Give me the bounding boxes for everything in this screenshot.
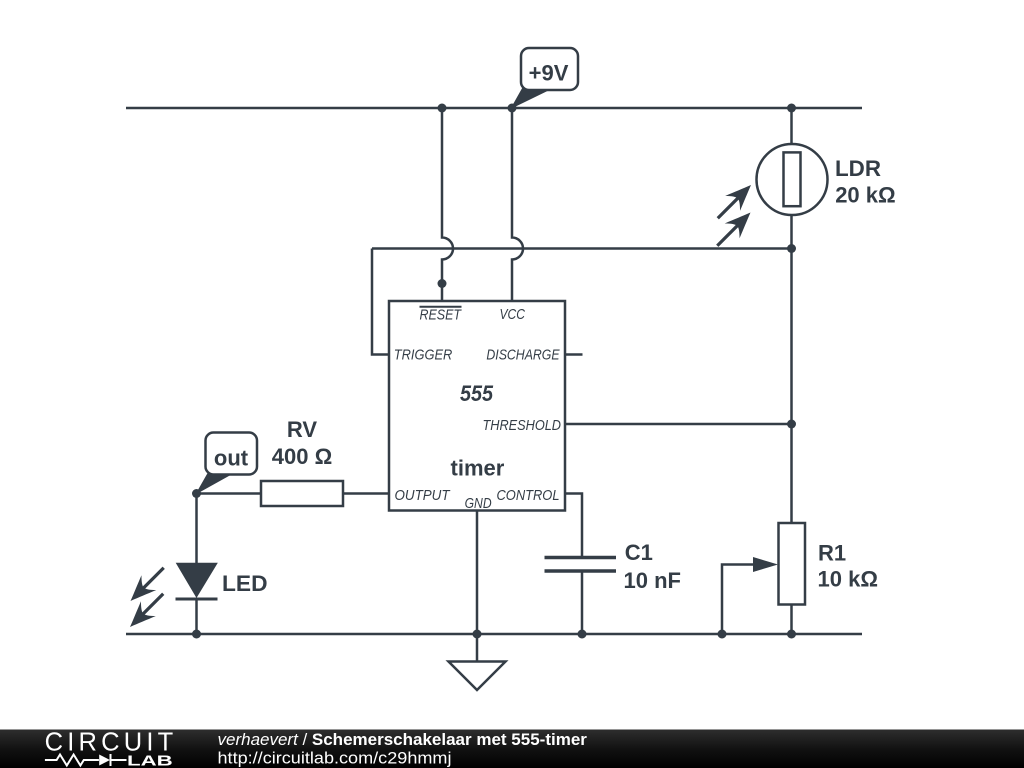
wire top +9V rail: [126, 107, 862, 110]
svg-text:TRIGGER: TRIGGER: [394, 348, 453, 364]
svg-text:THRESHOLD: THRESHOLD: [483, 418, 562, 434]
wire VCC from rail (with hop): [512, 108, 523, 301]
node dot rail / LED: [192, 630, 201, 639]
wire CONTROL to C1: [565, 494, 582, 557]
wire GND pin to rail: [476, 511, 479, 635]
node dot rail / GND: [473, 630, 482, 639]
node dot top rail / +9V: [508, 104, 517, 113]
svg-text:LDR: LDR: [835, 156, 881, 181]
svg-text:CONTROL: CONTROL: [497, 488, 560, 504]
wire LED cathode to rail: [195, 599, 198, 634]
svg-text:out: out: [214, 446, 249, 471]
pin label RESET (with overline): [420, 307, 462, 324]
svg-text:Schemerschakelaar met 555-time: Schemerschakelaar met 555-timer: [312, 730, 587, 749]
wire RESET from rail (with hop): [442, 108, 453, 301]
label R1 value: [818, 541, 878, 592]
label C1 value: [624, 540, 681, 593]
LDR light arrow 2: [710, 205, 758, 253]
net flag +9V: [512, 48, 579, 108]
wire out node to RV: [197, 492, 262, 495]
node dot top rail / LDR: [787, 104, 796, 113]
svg-text:DISCHARGE: DISCHARGE: [486, 348, 559, 364]
svg-text:verhaevert: verhaevert: [218, 730, 300, 749]
node dot LDR bottom: [787, 244, 796, 253]
svg-text:/: /: [303, 730, 308, 749]
svg-text:10 nF: 10 nF: [624, 568, 681, 593]
footer bar: [0, 730, 1024, 768]
LED light arrow 2: [123, 586, 171, 634]
LED D1: [176, 564, 218, 600]
wire R1 wiper: [722, 565, 753, 635]
node dot RESET wire: [438, 279, 447, 288]
wire TRIGGER: [372, 249, 389, 355]
svg-text:OUTPUT: OUTPUT: [395, 488, 451, 504]
node dot rail / R1: [787, 630, 796, 639]
ground symbol: [449, 634, 506, 690]
IC U1 555 timer box: [389, 301, 565, 511]
node dot rail / C1: [578, 630, 587, 639]
logo resistor and diode glyph: [45, 754, 127, 766]
wire OUTPUT to RV: [343, 492, 389, 495]
svg-text:CIRCUIT: CIRCUIT: [45, 729, 178, 757]
capacitor C1: [545, 558, 617, 572]
node dot rail / wiper: [718, 630, 727, 639]
svg-text:VCC: VCC: [500, 307, 526, 323]
svg-text:400 Ω: 400 Ω: [272, 444, 332, 469]
svg-text:C1: C1: [625, 540, 653, 565]
node dot THRESHOLD / R1: [787, 420, 796, 429]
LDR light arrow 1: [710, 178, 758, 226]
photoresistor LDR symbol: [757, 144, 828, 215]
wire R1 bottom to rail: [790, 605, 793, 635]
node dot out: [192, 489, 201, 498]
node dot top rail / RESET: [438, 104, 447, 113]
wire LDR top: [790, 108, 793, 145]
svg-text:http://circuitlab.com/c29hmmj: http://circuitlab.com/c29hmmj: [218, 748, 452, 767]
net flag out: [197, 433, 258, 494]
wire LDR bottom to R1: [790, 215, 793, 524]
svg-text:GND: GND: [465, 496, 492, 512]
svg-text:timer: timer: [451, 455, 505, 480]
wire node B horizontal (LDR to trigger): [372, 247, 792, 250]
svg-text:RV: RV: [287, 417, 317, 442]
svg-text:20 kΩ: 20 kΩ: [835, 183, 895, 208]
wire bottom ground rail: [126, 633, 862, 636]
label LDR value: [835, 156, 896, 208]
wire C1 to rail: [581, 573, 584, 635]
wire THRESHOLD: [565, 423, 792, 426]
svg-text:LED: LED: [222, 571, 268, 596]
label RV value: [272, 417, 332, 469]
wire out node to LED: [195, 494, 198, 565]
svg-text:+9V: +9V: [529, 60, 569, 85]
svg-text:10 kΩ: 10 kΩ: [818, 567, 878, 592]
svg-text:R1: R1: [818, 541, 846, 566]
svg-text:RESET: RESET: [420, 307, 462, 323]
potentiometer R1: [753, 523, 805, 605]
svg-text:555: 555: [460, 381, 494, 406]
LED light arrow 1: [123, 560, 171, 608]
svg-text:LAB: LAB: [127, 754, 173, 768]
wire DISCHARGE stub: [565, 353, 583, 356]
resistor RV: [261, 481, 343, 506]
